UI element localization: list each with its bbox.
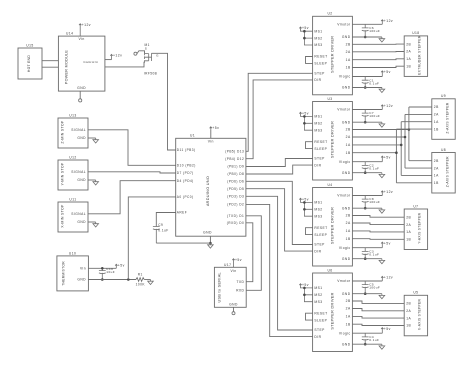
terminal U14 GND [79,91,81,99]
wire U3 2A to Z splitter [352,136,405,138]
svg-text:RESET: RESET [314,311,327,315]
svg-text:2A: 2A [346,221,351,225]
svg-text:+12v: +12v [113,54,122,58]
capacitor C8 100uF [362,196,369,209]
wire U4 Vlogic to +5v [352,247,382,249]
endstop U11 [58,202,88,232]
ground [148,280,154,285]
junction [303,294,306,297]
svg-text:0.1uF: 0.1uF [369,253,379,257]
svg-text:10uF: 10uF [106,270,115,274]
wire D13 to U2 STEP [246,73,313,151]
svg-text:+5v: +5v [302,111,309,115]
wire to U9 1B [396,128,431,130]
wire U4 logic GND to ground [352,258,382,260]
svg-text:U6: U6 [327,268,332,272]
wire X-min SIGNAL to D4 [88,181,176,214]
svg-text:(PD6) D6: (PD6) D6 [227,180,244,184]
svg-text:(PB5) D13: (PB5) D13 [225,150,244,154]
svg-text:2A: 2A [406,223,411,227]
wire U3 1B to Z splitter [352,152,396,154]
svg-text:SLEEP: SLEEP [314,233,327,237]
stepper motor U8 Z-AXIS STEPPER [432,153,455,194]
svg-text:MS3: MS3 [314,300,322,304]
ground [379,344,385,349]
+5v supply U4 MS pins [299,198,312,216]
svg-text:DIR: DIR [314,78,321,82]
svg-text:2A: 2A [346,307,351,311]
wire U4 2B to U7 [352,216,404,218]
svg-text:(PD2) D2: (PD2) D2 [227,203,244,207]
svg-text:+12v: +12v [384,190,393,194]
svg-text:U3: U3 [327,97,332,101]
Arduino U1 [176,138,246,236]
wire to U8 2A [405,167,432,169]
wire D3 to U6 STEP [246,196,313,330]
svg-text:STEP: STEP [314,243,325,247]
svg-text:2B: 2B [406,302,411,306]
wire U1 GND [209,236,211,243]
capacitor C5 100uF [362,281,369,294]
wire U6 1B to U5 [352,324,404,325]
junction [364,36,367,39]
svg-text:0.1uF: 0.1uF [369,338,379,342]
svg-text:+12v: +12v [384,19,393,23]
svg-text:100K: 100K [136,283,146,287]
svg-text:D11 (PB3): D11 (PB3) [177,148,196,152]
svg-text:(PD5) D5: (PD5) D5 [227,187,244,191]
terminal U17 GND [233,307,235,311]
wire M1 gate to Arduino D11 [152,53,176,150]
svg-text:U8: U8 [441,148,446,152]
wire U2 Vmotor to +12v [352,23,382,25]
svg-text:GND: GND [229,302,238,306]
svg-text:1A: 1A [406,230,411,234]
svg-text:SLEEP: SLEEP [314,147,327,151]
stepper motor U5 X-AXIS STEPPER [404,295,427,336]
svg-text:STEPPER DRIVER: STEPPER DRIVER [331,292,335,329]
junction [364,257,367,260]
svg-text:+5v: +5v [384,327,391,331]
+12v supply U6 [381,276,383,281]
+5v supply U3 MS pins [299,112,312,130]
wire U11 GND [88,221,96,223]
svg-text:STEPPER DRIVER: STEPPER DRIVER [331,36,335,73]
svg-text:USB to SERIAL: USB to SERIAL [218,272,222,303]
+5v supply U17 Vin [232,259,234,268]
svg-text:(TXD) D1: (TXD) D1 [227,214,244,218]
svg-text:2B: 2B [434,105,439,109]
svg-text:1A: 1A [406,316,411,320]
svg-text:GND: GND [342,292,351,296]
wire Y-min SIGNAL to D7 [88,172,176,173]
svg-text:D7 (PD7): D7 (PD7) [177,171,194,175]
ground [379,208,385,213]
svg-text:1B: 1B [346,151,351,155]
ground [379,173,385,178]
wire to U9 2B [409,106,432,108]
svg-text:S: S [145,47,147,51]
junction [209,242,212,245]
svg-text:+5v: +5v [384,155,391,159]
svg-text:DIR: DIR [314,335,321,339]
stepper motor U9 Z-AXIS STEPPER [432,99,455,140]
stepper driver U3 [313,102,353,181]
wire U2 2B to U18 [352,43,404,45]
svg-text:Vin: Vin [78,37,84,41]
svg-text:STEPPER DRIVER: STEPPER DRIVER [331,121,335,158]
wire U4 2A to U7 [352,223,404,225]
wire D0 to U17 TXD [246,223,253,282]
capacitor C9 0.1uF [153,227,160,244]
svg-text:U2: U2 [327,12,332,16]
svg-text:Vin: Vin [230,269,236,273]
svg-text:2B: 2B [406,42,411,46]
svg-text:Vlogic: Vlogic [339,160,351,164]
wire U4 1A to U7 [352,231,404,232]
svg-text:GND: GND [342,257,351,261]
svg-text:U17: U17 [224,263,231,267]
svg-text:GND: GND [77,220,86,224]
svg-text:100uF: 100uF [369,200,380,204]
junction [303,122,306,125]
wire U4 RESET-SLEEP loop [306,228,313,235]
ground [379,88,385,93]
capacitor C1 0.1uF [362,77,369,88]
wire U6 Vlogic to +5v [352,332,382,334]
ground [379,294,385,299]
wire D9 to U3 STEP [246,159,313,167]
svg-text:Vmotor: Vmotor [337,108,351,112]
USB to serial U17 [214,267,246,307]
svg-text:STEP: STEP [314,72,325,76]
wire Z splitter 2B vertical [408,107,410,161]
wire [42,60,58,62]
+5v supply U4 [381,242,383,248]
wire to U9 1A [401,121,432,123]
capacitor C7 100uF [362,110,369,123]
ground [379,259,385,264]
svg-text:GND: GND [77,136,86,140]
svg-text:2A: 2A [406,309,411,313]
svg-text:+12v: +12v [384,104,393,108]
wire Z-min SIGNAL to D10 [88,130,176,166]
svg-text:100uF: 100uF [369,29,380,33]
svg-text:A0 (PC0): A0 (PC0) [177,195,194,199]
+12v supply U14 Vin [79,24,81,36]
svg-text:GND: GND [342,171,351,175]
svg-text:GND: GND [77,86,86,90]
svg-text:2A: 2A [434,113,439,117]
junction [364,171,367,174]
wire U2 1B to U18 [352,66,404,67]
capacitor C4 0.1uF [362,333,369,344]
svg-text:0.1uF: 0.1uF [158,228,168,232]
svg-text:MS1: MS1 [314,286,322,290]
junction [101,267,104,270]
svg-text:U13: U13 [69,114,76,118]
svg-text:GND: GND [342,342,351,346]
junction node A0 [127,278,130,281]
junction [364,292,367,295]
svg-text:GND: GND [342,206,351,210]
svg-text:+5v: +5v [384,241,391,245]
svg-text:DIR: DIR [314,163,321,167]
svg-text:Vlogic: Vlogic [339,246,351,250]
junction [303,37,306,40]
+5v supply U6 MS pins [299,284,312,302]
wire U2 RESET-SLEEP loop [306,57,313,64]
svg-text:2A: 2A [406,50,411,54]
wire D2 to U6 DIR [246,204,313,336]
wire U2 1A to U18 [352,58,404,61]
capacitor C10 [99,268,106,279]
svg-text:Vmotor: Vmotor [337,23,351,27]
stepper driver U4 [313,188,353,267]
svg-text:STEP: STEP [314,328,325,332]
svg-text:2B: 2B [346,214,351,218]
junction [303,287,306,290]
ground [208,243,214,248]
wire U12 GND [88,179,96,181]
svg-text:1B: 1B [346,237,351,241]
svg-text:1B: 1B [406,64,411,68]
svg-text:U5: U5 [413,291,418,295]
svg-text:U12: U12 [69,156,76,160]
svg-text:G: G [156,54,159,58]
wire Z splitter 1B vertical [395,129,397,183]
stepper motor U18 EXTRUDER STEPPER [404,36,427,77]
stepper motor U7 Y-AXIS STEPPER [404,209,427,250]
junction [303,201,306,204]
svg-text:D4 (PD4): D4 (PD4) [177,179,194,183]
svg-text:(RXD) D0: (RXD) D0 [227,221,244,225]
svg-text:MS1: MS1 [314,115,322,119]
svg-text:U15: U15 [26,44,33,48]
+5v supply U1 Vin [210,129,212,138]
ground [379,122,385,127]
svg-text:+5v: +5v [212,126,219,130]
ground [379,37,385,42]
wire to U8 1A [401,174,432,176]
svg-text:TXD: TXD [236,280,244,284]
svg-text:2A: 2A [434,166,439,170]
hot end U15 [18,48,42,79]
wire to U9 2A [405,113,432,115]
svg-text:MS1: MS1 [314,201,322,205]
svg-text:U4: U4 [327,183,332,187]
svg-text:+5v: +5v [302,26,309,30]
stepper driver U2 [313,16,353,95]
wire U4 1B to U7 [352,238,404,241]
junction [364,121,367,124]
svg-text:EXTRUDER STEPPER: EXTRUDER STEPPER [418,35,422,75]
+5v supply U6 [381,328,383,334]
svg-text:1B: 1B [346,322,351,326]
svg-text:2B: 2B [406,215,411,219]
svg-text:Y-MIN STOP: Y-MIN STOP [61,162,65,185]
capacitor C2 0.1uF [362,162,369,173]
wire U3 RESET-SLEEP loop [306,142,313,149]
svg-text:1A: 1A [346,143,351,147]
svg-text:100uF: 100uF [369,286,380,290]
wire U2 logic GND to ground [352,87,382,89]
resistor R1 100K [136,278,144,282]
wire to U8 1B [396,182,431,184]
+12v supply U3 [381,105,383,110]
svg-text:0.1uF: 0.1uF [369,81,379,85]
svg-text:1A: 1A [346,229,351,233]
svg-text:RESET: RESET [314,140,327,144]
svg-text:2A: 2A [346,135,351,139]
wire R1 to ground [144,279,150,281]
svg-text:MS3: MS3 [314,43,322,47]
svg-text:Vin: Vin [208,139,214,143]
wire AREF to C9 [156,213,175,227]
svg-text:Vin: Vin [80,266,86,270]
capacitor C6 100uF [362,24,369,37]
junction [364,207,367,210]
svg-text:GND: GND [342,120,351,124]
svg-text:1A: 1A [434,120,439,124]
endstop U12 [58,160,88,190]
wire [42,66,58,68]
svg-text:1A: 1A [406,57,411,61]
wire U13 GND [88,137,96,139]
junction [364,343,367,346]
wire U2 Vlogic to +5v [352,76,382,78]
junction [395,151,398,154]
svg-text:1B: 1B [406,238,411,242]
svg-text:1B: 1B [434,127,439,131]
svg-text:1A: 1A [346,58,351,62]
svg-text:+5v: +5v [118,263,125,267]
svg-text:GND: GND [203,230,212,234]
svg-text:U11: U11 [69,198,76,202]
junction [404,136,407,139]
svg-text:1B: 1B [346,66,351,70]
svg-text:0.1uF: 0.1uF [369,167,379,171]
svg-text:2B: 2B [434,159,439,163]
wire U3 1A to Z splitter [352,144,401,146]
svg-text:(PB1) D9: (PB1) D9 [227,165,244,169]
power module U14 [58,36,105,91]
svg-text:2B: 2B [346,43,351,47]
junction [101,278,104,281]
wire A0 sense to Arduino A0 [128,197,175,280]
wire C9 to GND node [156,242,210,244]
wire U10 Vin to +5v [88,267,116,269]
svg-text:1B: 1B [406,324,411,328]
junction [303,115,306,118]
wire D8 to U3 DIR [246,165,313,174]
svg-text:2B: 2B [346,299,351,303]
svg-text:C9: C9 [158,223,163,227]
svg-text:SIGNAL: SIGNAL [71,170,86,174]
svg-text:+5v: +5v [384,70,391,74]
svg-text:Vlogic: Vlogic [339,75,351,79]
svg-text:+5v: +5v [235,258,242,262]
+12v supply U4 [381,191,383,196]
svg-text:GND: GND [342,86,351,90]
svg-text:Vmotor: Vmotor [337,279,351,283]
svg-text:U18: U18 [412,31,419,35]
wire D1 to U17 RXD [246,216,261,290]
svg-text:GND: GND [77,278,86,282]
wire D5 to U4 DIR [246,189,313,251]
svg-text:+5v: +5v [302,283,309,287]
+5v supply U2 [381,71,383,77]
svg-text:U10: U10 [69,251,76,255]
wire U3 2B to Z splitter [352,129,409,131]
svg-text:R1: R1 [138,272,143,276]
svg-text:(PB0) D8: (PB0) D8 [227,172,244,176]
svg-text:RXD: RXD [236,289,244,293]
wire U3 Vlogic to +5v [352,161,382,163]
svg-text:+12v: +12v [384,276,393,280]
svg-text:MS2: MS2 [314,208,322,212]
svg-text:U1: U1 [190,134,195,138]
svg-text:HOT END: HOT END [27,55,31,73]
svg-text:1A: 1A [434,174,439,178]
svg-text:100uF: 100uF [369,114,380,118]
svg-text:Z-AXIS STEPPER: Z-AXIS STEPPER [445,102,449,133]
svg-text:Z-MIN STOP: Z-MIN STOP [61,120,65,144]
svg-text:Vmotor: Vmotor [337,194,351,198]
svg-text:MS2: MS2 [314,122,322,126]
junction [364,86,367,89]
wire Z splitter 1A vertical [400,122,402,176]
svg-text:+12v: +12v [82,23,91,27]
junction [303,30,306,33]
wire U3 logic GND to ground [352,172,382,174]
svg-text:SLEEP: SLEEP [314,318,327,322]
wire U4 GND to ground [352,207,382,209]
wire Control In to +12v [105,59,112,61]
+5v supply at thermistor [115,264,117,268]
+12v supply U2 [381,20,383,25]
svg-text:U7: U7 [413,204,418,208]
wire D12 to U2 DIR [246,80,313,159]
wire D6 to U4 STEP [246,181,313,244]
svg-text:ARDUINO UNO: ARDUINO UNO [206,176,210,206]
endstop U13 [58,118,88,148]
svg-text:THERMISTOR: THERMISTOR [61,261,65,286]
+12v supply at Control In [110,54,112,59]
svg-text:POWER MODULE: POWER MODULE [65,50,69,85]
svg-text:(PB4) D12: (PB4) D12 [225,157,244,161]
wire U6 2B to U5 [352,301,404,303]
svg-text:D10 (PB2): D10 (PB2) [177,164,196,168]
wire U3 Vmotor to +12v [352,109,382,111]
svg-text:STEP: STEP [314,157,325,161]
wire U6 2A to U5 [352,309,404,311]
svg-text:AREF: AREF [177,211,187,215]
svg-text:+5v: +5v [302,197,309,201]
svg-text:MS2: MS2 [314,36,322,40]
wire Control In row to M1 source [105,62,144,67]
svg-text:U9: U9 [441,94,446,98]
junction [400,144,403,147]
svg-text:Control In: Control In [83,60,98,64]
+5v supply U2 MS pins [299,27,312,45]
wire Z splitter 2A vertical [404,114,406,168]
wire to U8 2B [409,160,432,162]
junction [303,208,306,211]
svg-text:2A: 2A [346,50,351,54]
svg-text:Y-AXIS STEPPER: Y-AXIS STEPPER [418,212,422,243]
svg-text:MS3: MS3 [314,214,322,218]
